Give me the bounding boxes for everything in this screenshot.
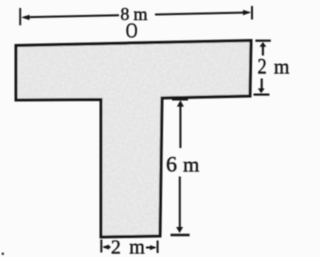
dimension 6 m : lower line <box>179 177 181 229</box>
svg-text:m: m <box>274 56 290 78</box>
dimension 6 m : down arrow <box>176 227 183 233</box>
svg-text:m: m <box>129 236 145 257</box>
dimension 8 m : left tick <box>19 8 21 25</box>
dimension 2 m (bottom) : right tick <box>157 241 159 254</box>
dimension 2 m (bottom) : left tick <box>100 240 102 253</box>
scan texture inside lamina <box>10 35 256 242</box>
dimension 2 m (right) : down arrow <box>261 79 263 90</box>
dimension 6 m : upper line <box>179 106 181 149</box>
dimension 2 m (bottom) : left arrow <box>102 245 109 250</box>
dimension 8 m : right line segment <box>155 13 249 15</box>
svg-text:6: 6 <box>166 152 177 177</box>
svg-text:O: O <box>126 20 138 43</box>
dimension 8 m : right arrow head <box>243 10 251 15</box>
dimension 2 m (right) : up arrow <box>260 42 267 47</box>
T-shaped lamina (grey fill) <box>16 41 251 238</box>
dimension 2 m (right) : top cap <box>255 40 270 42</box>
dimension 2 m (bottom) : right arrow <box>146 247 155 249</box>
ink speck bottom-left <box>2 253 4 255</box>
dimension 8 m : left arrow head <box>21 15 29 20</box>
svg-text:m: m <box>183 153 199 177</box>
dimension 2 m (right) : bottom cap <box>254 93 270 95</box>
T-shaped lamina outline (thick black border) <box>16 41 251 238</box>
svg-text:2: 2 <box>258 55 267 79</box>
dimension 6 m : bottom cap <box>171 234 190 237</box>
dimension 8 m : right tick <box>251 6 253 20</box>
dimension 6 m : top cap <box>172 98 188 101</box>
dimension 8 m : left line segment <box>24 15 119 17</box>
svg-text:2: 2 <box>111 236 121 257</box>
dimension 6 m : up arrow <box>177 100 184 106</box>
